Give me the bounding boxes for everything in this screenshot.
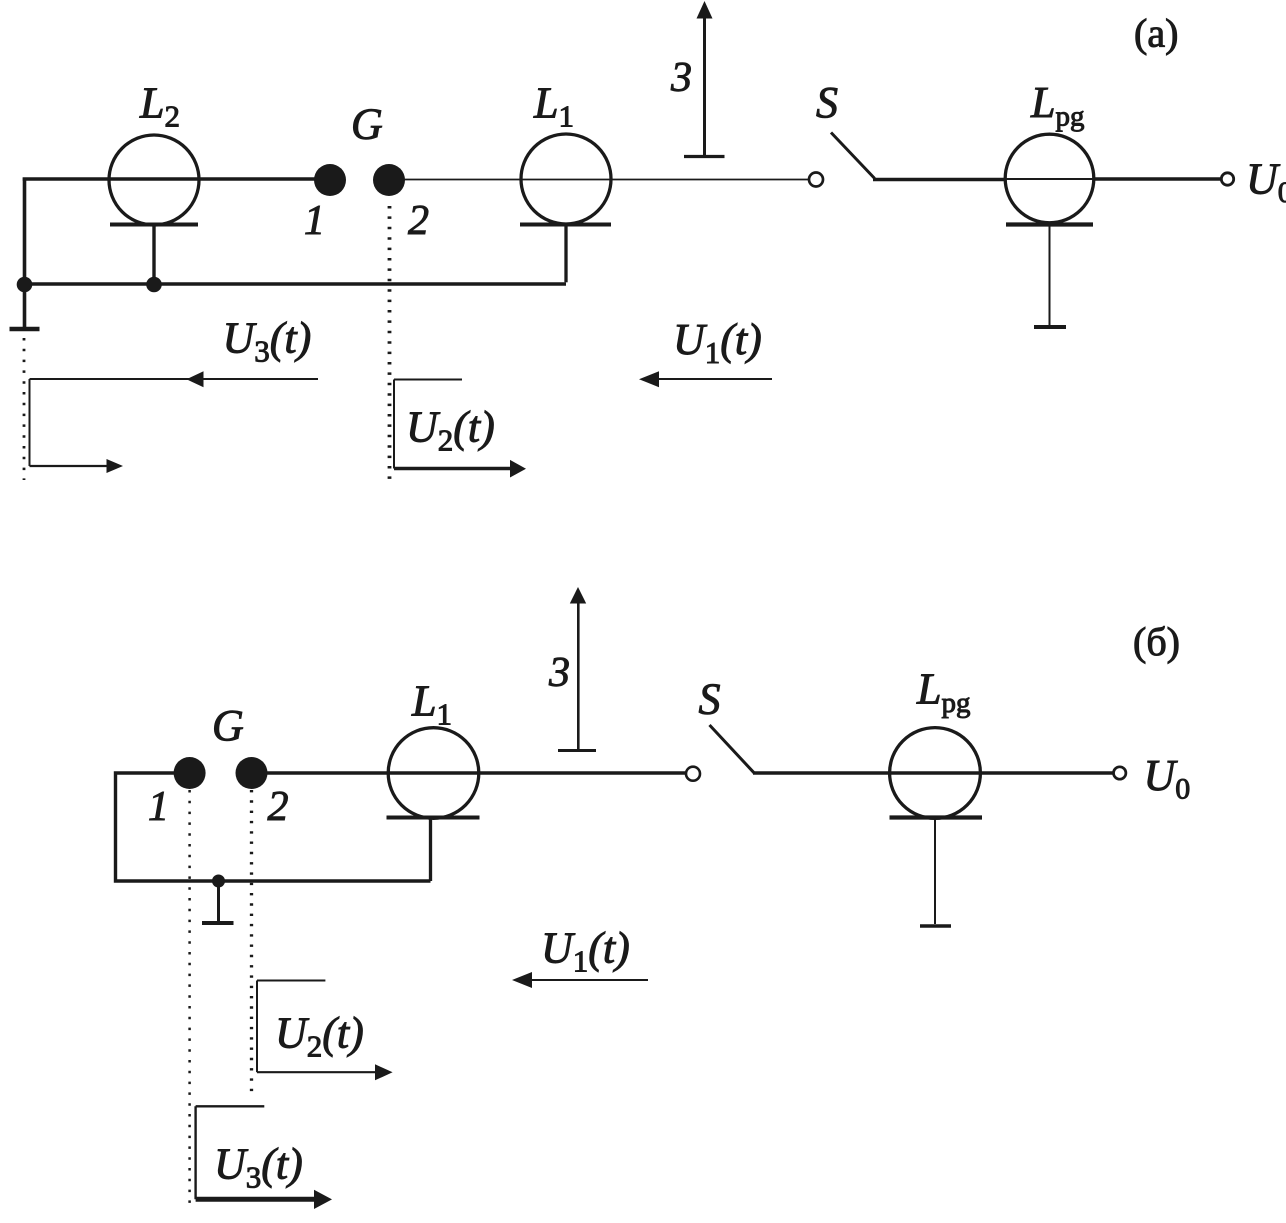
inductor L1 (measuring coil circle) (521, 134, 611, 224)
inductor Lpg (circle) (890, 728, 981, 819)
svg-text:(б): (б) (1133, 619, 1180, 664)
wave U2 step trace (a) (394, 379, 462, 381)
node: junction dot left (17, 277, 33, 293)
terminal U0 (open circle) (1114, 767, 1126, 779)
svg-text:U3(t): U3(t) (223, 314, 312, 369)
wire: thin line from electrode 2 through L1 to switch (389, 179, 809, 181)
ground tick (202, 921, 234, 925)
wire: thick line from switch to Lpg (873, 178, 1006, 182)
inductor Lpg (circle) (1005, 134, 1094, 223)
svg-text:G: G (212, 701, 244, 750)
switch S blade (831, 133, 875, 179)
terminal U0 (open circle) (1221, 173, 1233, 185)
wave U3 step trace (a) (30, 378, 319, 380)
wire: L1 stem to return (429, 819, 432, 881)
svg-text:1: 1 (304, 198, 325, 244)
wire: main horizontal line from left corner through L2 to electrode 1 (23, 177, 330, 181)
ground stem (217, 881, 220, 921)
wire: Lpg ground stem (934, 819, 936, 924)
bar under L1 (520, 223, 611, 227)
spark gap G electrode 1 (314, 164, 346, 196)
svg-text:U2(t): U2(t) (406, 403, 495, 458)
svg-text:U1(t): U1(t) (541, 924, 630, 979)
spark gap G electrode 2 (373, 164, 405, 196)
inductor L2 (measuring coil circle) (109, 135, 199, 225)
svg-text:3: 3 (670, 55, 692, 101)
dotted reference line from electrode 2 (250, 790, 253, 1096)
svg-text:G: G (351, 100, 383, 149)
svg-text:L1: L1 (411, 677, 452, 732)
svg-text:Lpg: Lpg (916, 665, 970, 720)
node: junction dot under L2 (146, 277, 162, 293)
wire: Lpg ground stem (1049, 226, 1051, 325)
switch S blade (710, 725, 755, 773)
wire: L2 stem to bus (152, 226, 155, 284)
wire: thick main line from electrode 2 through L1 to switch (252, 771, 686, 774)
svg-text:2: 2 (408, 198, 429, 244)
wire: thin line through Lpg (1005, 178, 1094, 180)
svg-text:L2: L2 (139, 79, 180, 134)
wire: left vertical riser (23, 178, 27, 285)
arrow 3 (output direction) (703, 16, 706, 156)
dotted reference line from ground (23, 338, 26, 480)
ground tick under Lpg (920, 924, 951, 928)
svg-text:1: 1 (148, 784, 169, 830)
wire: thick line from switch through Lpg to terminal (753, 771, 1114, 774)
svg-text:(a): (a) (1134, 11, 1178, 56)
wire: L1 stem to bus (564, 226, 567, 282)
wave U1 arrow (b) (531, 979, 648, 981)
arrow 3 (output direction) (577, 600, 580, 750)
bar under Lpg (1006, 222, 1093, 226)
svg-text:Lpg: Lpg (1030, 78, 1084, 133)
wire: left loop (electrode 1 to return) (116, 773, 431, 881)
wave U3 step trace (b) (196, 1105, 265, 1107)
svg-text:U1(t): U1(t) (673, 315, 762, 370)
svg-text:U3(t): U3(t) (214, 1140, 303, 1195)
svg-text:U0: U0 (1246, 155, 1286, 210)
wire: thick line from Lpg to output terminal (1093, 177, 1221, 181)
wave U1 arrow (a) (658, 378, 772, 380)
bar under Lpg (890, 815, 983, 819)
spark gap G electrode 1 (174, 757, 206, 789)
svg-text:2: 2 (268, 784, 289, 830)
svg-text:L1: L1 (533, 79, 574, 134)
svg-text:U0: U0 (1144, 751, 1191, 806)
svg-text:3: 3 (548, 650, 570, 696)
dotted reference line from electrode 1 (188, 790, 191, 1208)
ground (left) (10, 327, 40, 332)
wire: bottom return bus (25, 282, 567, 286)
ground tick under Lpg (1034, 325, 1066, 329)
spark gap G electrode 2 (236, 757, 268, 789)
wave U2 step trace (b) (257, 980, 325, 982)
switch S open terminal (686, 767, 700, 781)
switch S open terminal (809, 173, 823, 187)
svg-text:S: S (699, 675, 721, 724)
svg-text:U2(t): U2(t) (275, 1009, 364, 1064)
bar under L2 (110, 223, 198, 227)
svg-text:S: S (816, 78, 838, 127)
node: junction dot on return wire (212, 875, 225, 888)
ground (left) stem (23, 284, 27, 327)
dotted reference line from electrode 2 (388, 206, 392, 481)
bar under L1 (387, 816, 480, 820)
inductor L1 (circle) (388, 728, 479, 819)
